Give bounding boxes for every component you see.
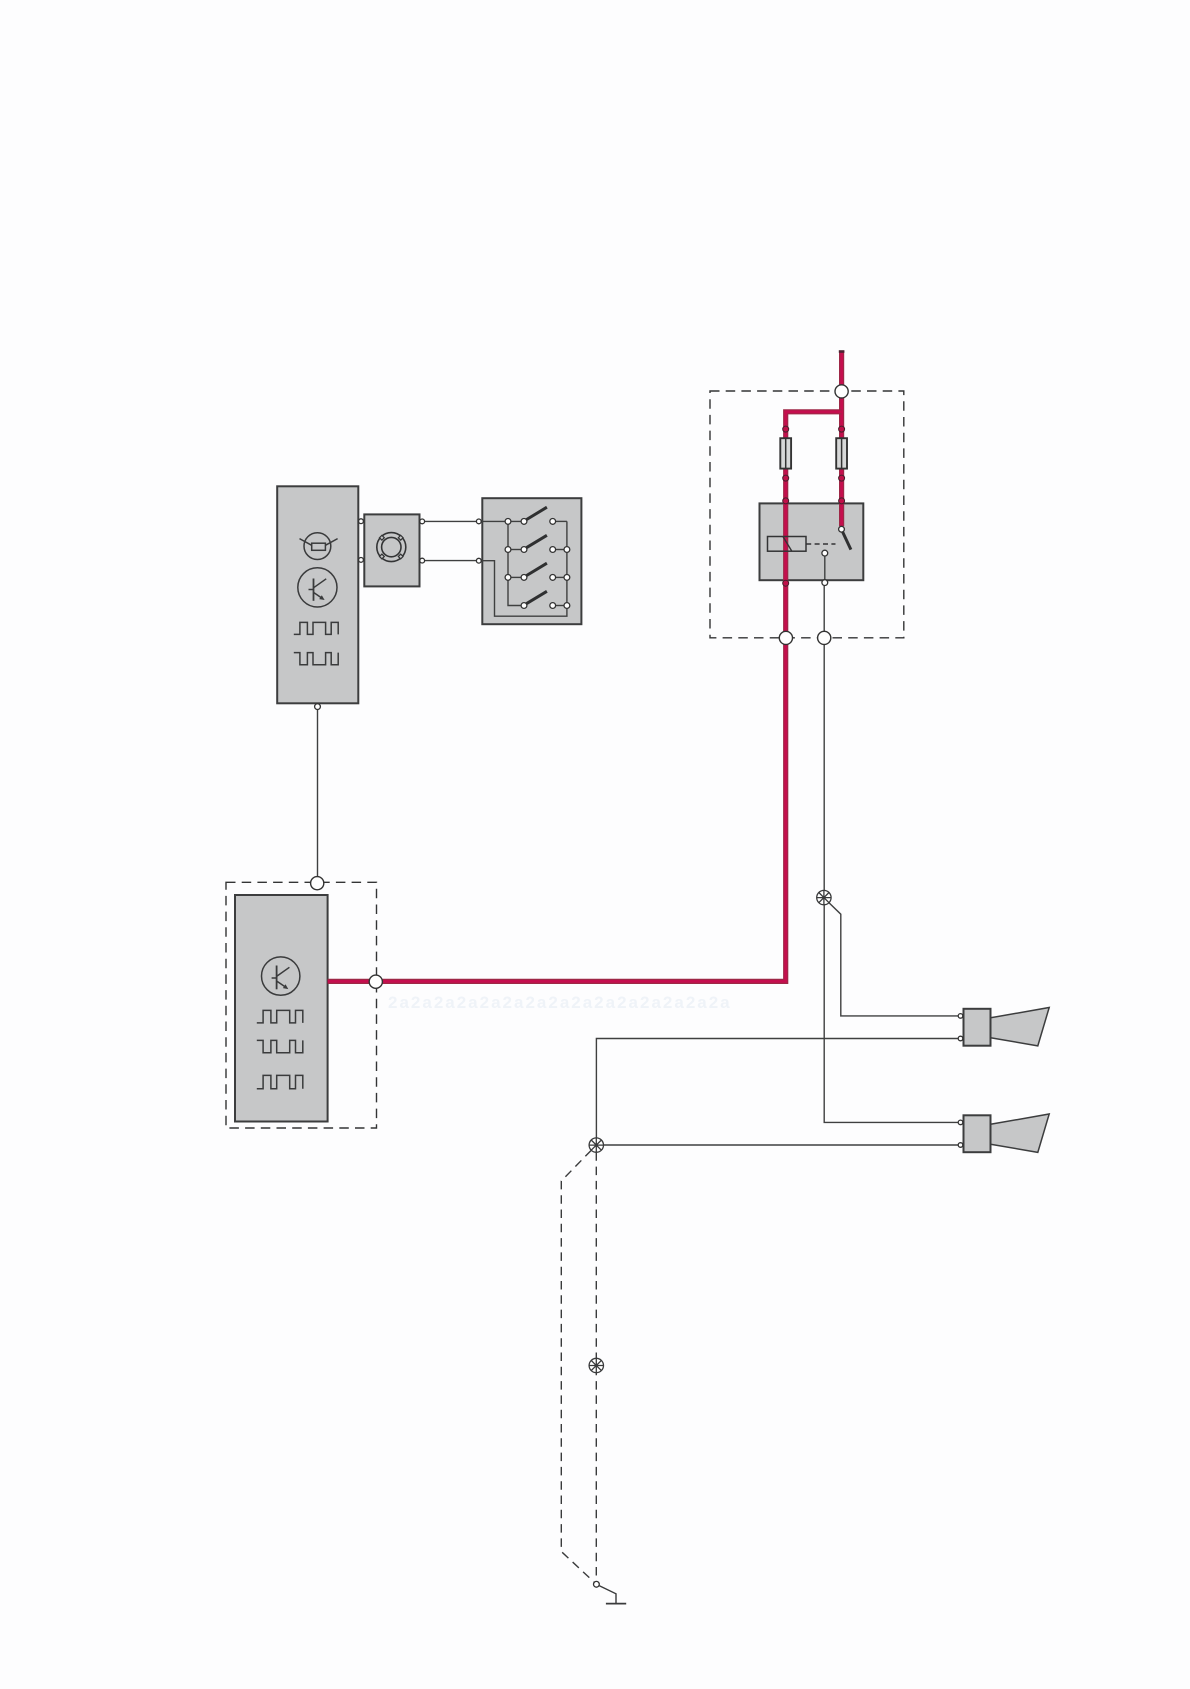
splice S1 (horn feed) [817, 890, 831, 904]
wire: switch pack right bus return [479, 521, 567, 616]
red terminal dots on fuse branches [783, 426, 845, 586]
relay pivot contact [839, 526, 845, 532]
pins clock spring left [359, 519, 364, 524]
module box: clock spring / contact reel [364, 514, 419, 586]
module box: lower ECU (CEM) [235, 895, 328, 1122]
ground bar [606, 1603, 626, 1605]
relay common contact [822, 550, 828, 556]
icon: clock spring symbol [377, 533, 406, 562]
connector at fuse box top [835, 385, 848, 398]
horn H1 [958, 1008, 1049, 1046]
relay bottom pin [822, 580, 828, 586]
fuse F1 [780, 438, 791, 468]
splice S2 (horn ground) [589, 1138, 603, 1152]
pins clock spring right [420, 519, 425, 524]
connector at lower ECU right [369, 975, 382, 988]
wire: switch row1 right to bus [553, 520, 567, 522]
relay actuating dashed link [806, 543, 835, 545]
fuse F2 [836, 438, 847, 468]
svg-text:2a2a2a2a2a2a2a2a2a2a2a2a2a2a2a: 2a2a2a2a2a2a2a2a2a2a2a2a2a2a2a [388, 993, 732, 1012]
icon: square wave 2 in SWM [294, 653, 338, 665]
dashed enclosure: lower control module box [226, 882, 377, 1128]
icon: square wave 1 in SWM [294, 622, 338, 634]
splice S3 (chassis) [589, 1358, 603, 1372]
red wire end cap [839, 350, 845, 353]
relay K box [760, 503, 864, 580]
relay coil [768, 537, 807, 552]
switch arms row1-4 [526, 507, 547, 519]
wire: switch row3 right to bus [553, 576, 567, 578]
connector at fuse box bottom right [818, 631, 831, 644]
icon: square wave B in lower ECU [257, 1040, 303, 1052]
dashed enclosure: engine-compartment fuse/relay box (CEM) [710, 391, 904, 638]
wire: switch pack left bus [508, 521, 524, 605]
wire: red branch to fuse and coil, down to ECU [328, 412, 842, 982]
switch moving contacts [521, 519, 527, 525]
wire: battery feed red, relay switch branch [839, 351, 844, 526]
wire: clock spring to switch pack row1 [422, 520, 479, 522]
relay switch arm [843, 532, 851, 550]
switch pack nodes left bus [505, 519, 511, 525]
module box: upper-left steering wheel module [277, 486, 358, 703]
wire: splice branch to horn H1 top terminal [829, 903, 958, 1016]
wire: switch row3 left [508, 576, 524, 578]
horn H2 [958, 1114, 1049, 1152]
icon: square wave A in lower ECU [257, 1010, 303, 1023]
wire: horn H2 bottom terminal to ground splice [604, 1144, 959, 1146]
connector at fuse box bottom left (red) [779, 631, 792, 644]
icon: transistor in lower ECU [262, 957, 300, 995]
wire: clock spring to switch pack row2 [422, 560, 479, 562]
wire: switch row2 left [508, 549, 524, 551]
wire: relay output down to splice [823, 585, 825, 890]
wire: splice to horn H2 top terminal [824, 905, 958, 1123]
switch right bus nodes [564, 547, 570, 553]
ground point circle [594, 1581, 600, 1587]
switch fixed contacts [550, 519, 556, 525]
pins switch pack inputs [476, 519, 481, 524]
wire: switch row2 right to bus [553, 549, 567, 551]
wire: switch row4 right to bus [553, 605, 567, 607]
connector at lower ECU top [311, 877, 324, 890]
wire: SWM to lower ECU (black) [317, 709, 319, 876]
wire: dashed chassis path to ground [595, 1152, 597, 1581]
icon: square wave C in lower ECU [257, 1075, 303, 1088]
pin at SWM bottom [315, 704, 321, 710]
icon: fused supply symbol in SWM [300, 533, 338, 560]
module box: steering wheel switch pack [482, 498, 581, 624]
wire: dashed chassis path left [561, 1150, 594, 1582]
icon: transistor in SWM [298, 568, 337, 607]
wire: relay common contact inside box [824, 556, 826, 580]
ground lead [599, 1586, 616, 1604]
wire: horn H1 bottom terminal to ground splice [596, 1039, 958, 1139]
wire: switch pack row1 feed [482, 520, 524, 522]
